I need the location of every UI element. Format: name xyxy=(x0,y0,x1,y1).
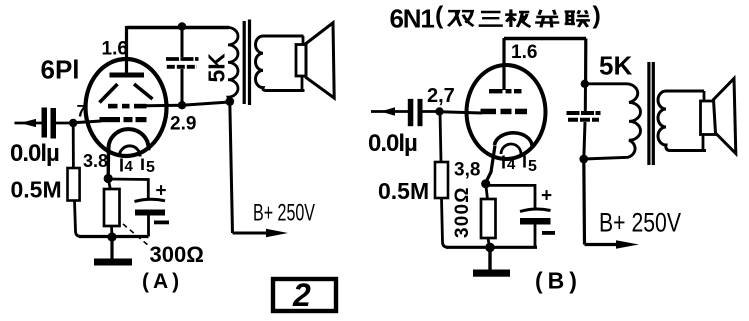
svg-text:5K: 5K xyxy=(204,53,230,83)
capacitor C-in-A 0.01u xyxy=(42,108,48,138)
B+ arrow B xyxy=(616,240,639,249)
capacitor Ck B minus plate xyxy=(520,218,551,225)
title hanzi shuang xyxy=(448,11,473,26)
wire top rail A xyxy=(127,26,230,29)
svg-text:4: 4 xyxy=(507,156,516,173)
node cathode B xyxy=(481,179,490,188)
polarity minus B xyxy=(542,231,555,235)
ground A xyxy=(110,237,113,259)
transformer T2 secondary B xyxy=(658,91,706,151)
capacitor Cp B bottom plate xyxy=(568,118,599,122)
svg-text:0.0lµ: 0.0lµ xyxy=(368,130,417,157)
svg-text:0.0lµ: 0.0lµ xyxy=(10,140,59,167)
capacitor Cp B top plate xyxy=(567,111,601,115)
svg-text:5: 5 xyxy=(528,158,537,175)
svg-text:B+ 250V: B+ 250V xyxy=(253,200,315,227)
wire cap to grid node A xyxy=(56,122,75,125)
svg-text:(A): (A) xyxy=(142,270,183,293)
speaker A driver xyxy=(302,36,305,45)
wire to B+ A xyxy=(230,102,233,234)
wire input A xyxy=(15,122,42,125)
wire ground rail A xyxy=(79,235,149,238)
plate lead A xyxy=(125,26,128,76)
control grid dashes A xyxy=(100,117,121,122)
title hanzi san xyxy=(479,12,503,26)
svg-text:1.6: 1.6 xyxy=(102,39,128,60)
tube 6N1 envelope xyxy=(467,65,546,159)
node rail B xyxy=(485,243,495,253)
transformer T1 primary A xyxy=(228,28,238,102)
svg-text:2,7: 2,7 xyxy=(427,85,455,107)
leader line 300ohm A xyxy=(123,224,149,246)
heater arc A xyxy=(119,146,140,157)
svg-text:0.5M: 0.5M xyxy=(378,178,429,204)
B+ arrow A xyxy=(266,229,288,238)
node primary bottom B xyxy=(579,155,588,164)
wire Ck to rail A xyxy=(147,216,150,237)
wire screen lead A 2.9 xyxy=(147,104,183,108)
wire plate to transformer B xyxy=(504,37,586,40)
heater arc B xyxy=(501,144,521,154)
plate bar B (broken print) xyxy=(489,89,503,93)
capacitor Cs A bottom plate xyxy=(167,65,197,69)
node screen line A xyxy=(178,101,186,109)
wire Rk to rail B xyxy=(488,238,490,247)
plate lead B xyxy=(502,38,505,90)
capacitor Ck A plus plate xyxy=(135,199,166,201)
svg-text:6N1: 6N1 xyxy=(390,4,435,34)
node primary top B xyxy=(581,80,589,88)
svg-text:+: + xyxy=(541,186,552,207)
grid dashes B xyxy=(481,109,497,115)
resistor R-grid-A 0.5M xyxy=(68,168,80,201)
node B+ A xyxy=(225,97,234,106)
wire Cs to screen line A xyxy=(181,69,184,106)
wire cathode to Ck B xyxy=(486,185,535,208)
node cathode A xyxy=(104,174,113,183)
capacitor Ck B plus plate xyxy=(520,209,551,212)
wire node to 0.5M A xyxy=(72,123,75,168)
svg-text:300Ω: 300Ω xyxy=(150,242,204,267)
wire cathode to Rk A xyxy=(108,179,110,191)
svg-text:(: ( xyxy=(435,2,444,30)
transformer T1 secondary A xyxy=(256,36,305,91)
cathode lead A xyxy=(106,150,110,178)
svg-text:300Ω: 300Ω xyxy=(452,186,473,238)
title hanzi ji xyxy=(505,9,530,27)
svg-text:0.5M: 0.5M xyxy=(11,177,62,203)
wire Rk to rail A xyxy=(110,226,113,237)
wire cathode to Rk B xyxy=(486,184,488,199)
wire Ck to rail B xyxy=(534,225,537,248)
beam plate right A xyxy=(134,84,153,99)
input arrow A xyxy=(20,119,36,127)
transformer T1 core A xyxy=(243,21,246,104)
polarity minus A xyxy=(154,221,169,225)
input arrow B xyxy=(381,107,396,115)
wire node to Cp B xyxy=(584,84,587,111)
node grid A xyxy=(69,119,77,127)
heater pin 4 xyxy=(120,159,123,172)
capacitor C-in-B xyxy=(408,99,414,126)
speaker B driver xyxy=(703,91,706,102)
cathode lead B xyxy=(486,146,495,183)
title hanzi bing xyxy=(535,10,559,28)
svg-text:2.9: 2.9 xyxy=(170,114,196,135)
screen grid dashes A xyxy=(108,104,118,109)
wire cap to node B xyxy=(423,110,442,113)
cathode arc A xyxy=(108,129,148,150)
svg-text:5K: 5K xyxy=(599,51,632,81)
svg-text:6Pl: 6Pl xyxy=(41,55,80,85)
svg-text:1.6: 1.6 xyxy=(511,42,537,63)
tube 6P1 envelope xyxy=(86,59,167,156)
svg-text:3.8: 3.8 xyxy=(83,151,108,171)
svg-text:4: 4 xyxy=(125,158,134,175)
plate bar A xyxy=(110,73,145,78)
heater pin 5 B xyxy=(523,156,526,168)
capacitor Cs A top plate xyxy=(166,57,199,61)
wire grid lead A pin7 xyxy=(73,121,101,123)
heater pin 5 xyxy=(141,159,144,171)
wire 0.5M to rail B xyxy=(442,198,449,247)
svg-text:5: 5 xyxy=(146,159,155,176)
wire node to Cs A xyxy=(181,27,184,58)
resistor Rk A 300ohm xyxy=(104,189,120,226)
heater pin 4 B xyxy=(502,156,505,169)
resistor Rk B 300ohm xyxy=(481,199,496,238)
node grid B xyxy=(435,107,443,115)
node rail A xyxy=(107,232,116,241)
wire input B xyxy=(371,110,408,113)
wire node to 0.5M B xyxy=(440,112,441,163)
figure number box 2 xyxy=(273,279,336,311)
wire cathode to Ck A xyxy=(108,179,148,199)
svg-text:2: 2 xyxy=(292,277,311,313)
node top rail A xyxy=(178,22,186,30)
wire to B+ B xyxy=(582,159,586,245)
cathode arc B xyxy=(495,133,533,146)
resistor R-grid-B 0.5M xyxy=(435,162,448,198)
beam plate left A xyxy=(100,84,118,103)
wire grid lead B xyxy=(440,112,483,113)
wire Cp to primary bottom B xyxy=(584,122,585,159)
speaker B horn xyxy=(714,79,736,154)
title hanzi lian xyxy=(565,10,590,27)
svg-text:): ) xyxy=(593,2,601,30)
capacitor Ck A minus plate xyxy=(135,210,165,216)
svg-text:+: + xyxy=(156,181,167,202)
speaker A horn xyxy=(306,23,334,98)
transformer T2 primary B xyxy=(584,84,641,159)
svg-text:3,8: 3,8 xyxy=(454,160,480,181)
wire 0.5M to rail A xyxy=(75,201,82,237)
wire ground rail B xyxy=(446,246,537,249)
svg-text:B+ 250V: B+ 250V xyxy=(599,208,681,238)
transformer T2 core B xyxy=(647,62,650,165)
ground B xyxy=(488,247,491,270)
svg-text:(B): (B) xyxy=(535,268,582,294)
